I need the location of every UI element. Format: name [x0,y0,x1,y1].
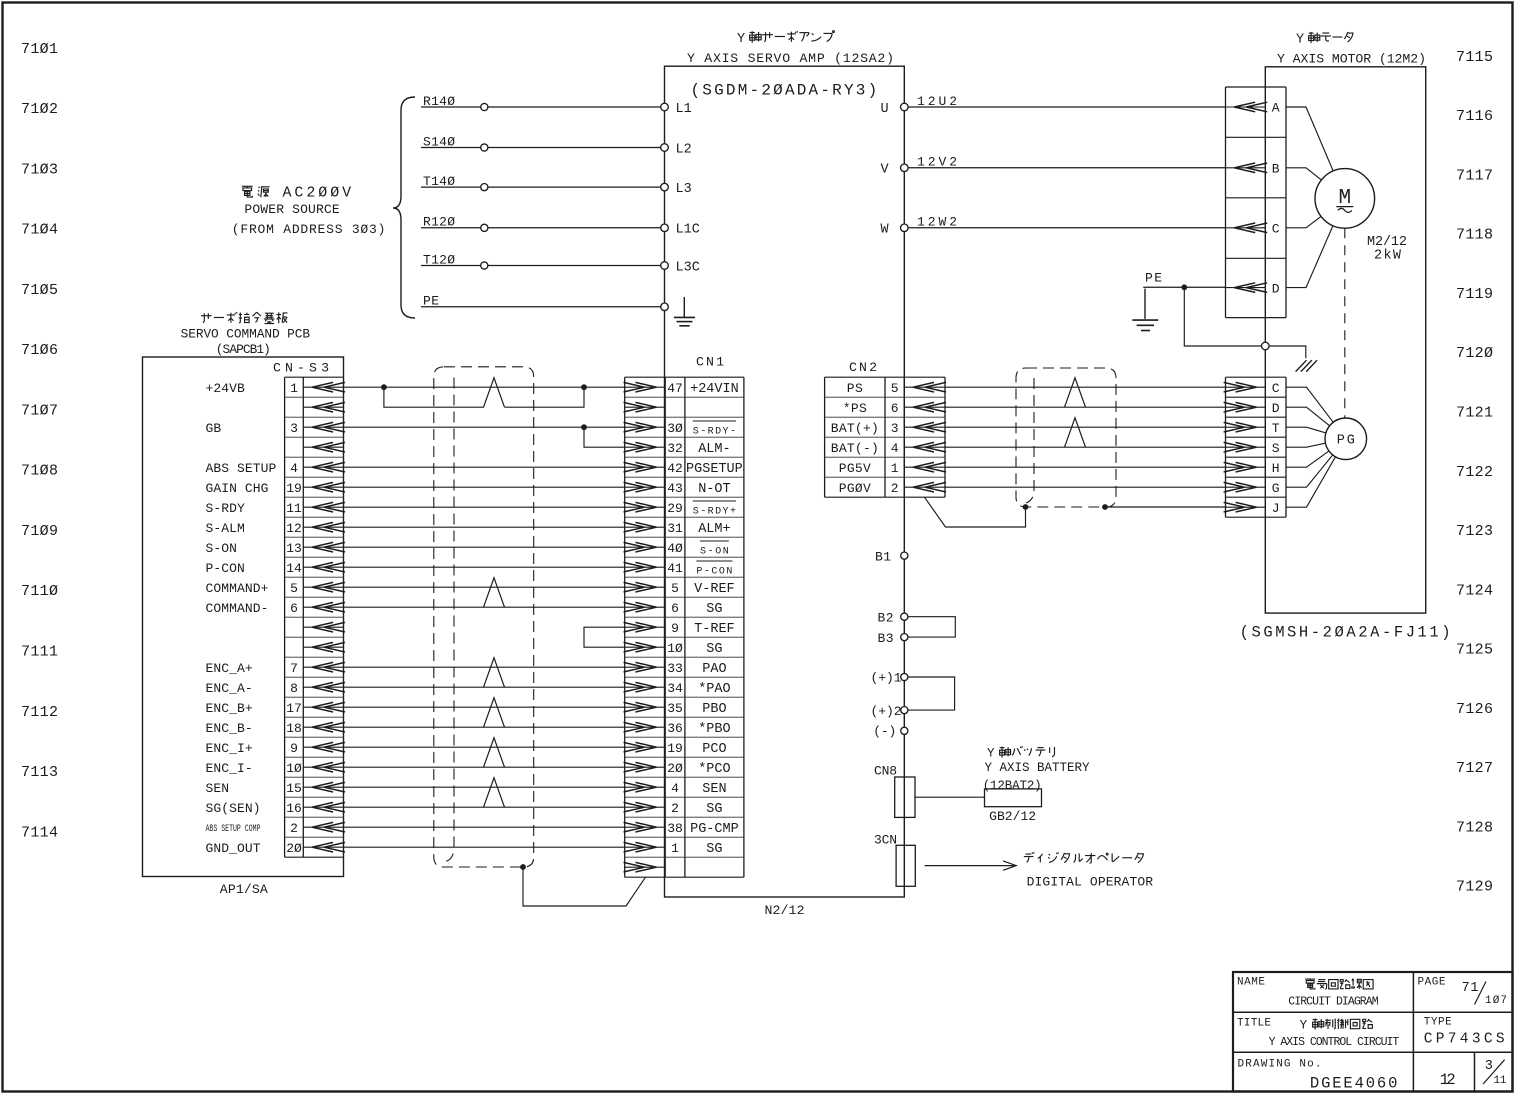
shield drain to J [1023,504,1029,510]
wire [344,666,625,668]
svg-text:7125: 7125 [1456,642,1493,659]
svg-text:19: 19 [667,741,683,756]
wire [344,486,625,488]
svg-text:ABS SETUP COMP: ABS SETUP COMP [206,824,261,835]
CN-S3 row pin 4 [303,466,343,468]
CN-S3 row pin 10 [303,766,343,768]
svg-text:DRAWING No.: DRAWING No. [1238,1059,1322,1071]
svg-text:PG5V: PG5V [839,461,871,476]
svg-text:S: S [1272,441,1280,456]
svg-text:3CN: 3CN [874,833,897,848]
motor terminal A [1226,106,1266,108]
CN2 shield (dashed) [1016,368,1116,507]
motor terminal D [1226,287,1266,289]
svg-text:*PAO: *PAO [698,682,730,697]
CN-S3 row pin 5 [303,586,343,588]
svg-text:14: 14 [286,561,302,576]
CN1 row pin 20 [625,766,666,768]
svg-text:CN8: CN8 [874,763,897,778]
CN-S3 row pin 1 [303,386,343,388]
wire [344,526,625,528]
CN1 row pin 31 [625,526,666,528]
svg-text:7118: 7118 [1456,227,1493,244]
svg-text:71Ø9: 71Ø9 [21,523,58,540]
svg-text:S14Ø: S14Ø [423,134,455,149]
svg-text:SG: SG [706,642,722,657]
svg-text:34: 34 [667,681,683,696]
cable shield (dashed) [434,367,534,867]
terminal L3C [661,262,669,270]
svg-text:PG: PG [1337,434,1355,449]
svg-text:2: 2 [891,481,899,496]
svg-text:Y: Y [1300,1019,1308,1033]
svg-text:SG: SG [706,602,722,617]
svg-text:L1C: L1C [676,223,700,238]
svg-text:71Ø1: 71Ø1 [21,41,58,58]
CN-S3 row pin 13 [303,546,343,548]
CN1 row pin 2 [625,806,666,808]
wire [344,506,625,508]
svg-text:(-): (-) [873,724,896,739]
CN-S3 row pin 19 [303,486,343,488]
svg-text:8: 8 [290,681,298,696]
svg-text:7116: 7116 [1456,108,1493,125]
svg-text:GB2/12: GB2/12 [989,809,1036,824]
svg-text:1Ø: 1Ø [286,761,302,776]
svg-text:SEN: SEN [702,782,726,797]
title block [1233,972,1513,1092]
CN1 row pin 29 [625,506,666,508]
svg-text:ENC_A+: ENC_A+ [206,661,253,676]
svg-text:3: 3 [891,421,899,436]
svg-text:CN1: CN1 [696,354,724,369]
wire [1286,439,1346,487]
CN-S3 connector table [285,376,344,378]
svg-text:9: 9 [290,741,298,756]
PG terminal D [1226,406,1266,408]
shield drain wire [520,864,526,870]
CN-S3 row pin 14 [303,566,343,568]
PG terminal H [1226,466,1266,468]
svg-text:33: 33 [667,661,683,676]
svg-text:S-RDY-: S-RDY- [693,426,736,437]
CN1 row pin 42 [625,466,666,468]
svg-text:2kW: 2kW [1374,249,1402,264]
svg-text:3: 3 [1485,1059,1493,1074]
twisted pair symbols [484,378,505,407]
svg-text:B3: B3 [878,631,894,646]
svg-text:SG(SEN): SG(SEN) [206,801,261,816]
svg-text:PE: PE [1145,271,1162,286]
wire [1286,387,1346,439]
terminal B1 [901,552,908,559]
CN-S3 row pin 16 [303,806,343,808]
svg-text:PCO: PCO [702,742,726,757]
svg-text:*PCO: *PCO [698,762,730,777]
svg-text:P-CON: P-CON [206,561,245,576]
svg-text:38: 38 [667,821,683,836]
CN1 row pin 36 [625,726,666,728]
svg-text:2: 2 [671,801,679,816]
motor terminal B [1226,167,1266,169]
svg-text:(+)2: (+)2 [871,704,902,719]
CN1 row pin 1 [625,846,666,848]
svg-text:1Ø7: 1Ø7 [1485,995,1507,1007]
svg-text:BAT(+): BAT(+) [831,421,879,436]
svg-text:19: 19 [286,481,302,496]
wire R140 [421,106,665,108]
svg-text:S-ALM: S-ALM [206,521,245,536]
svg-text:S-RDY: S-RDY [206,501,246,516]
wire [945,446,1226,448]
CN-S3 row pin 3 [303,426,343,428]
svg-text:42: 42 [667,461,683,476]
wire [344,746,625,748]
wire [1286,439,1346,467]
svg-text:Y: Y [737,32,745,47]
svg-text:U: U [881,102,889,117]
CN1 row pin 34 [625,686,666,688]
svg-text:S-ON: S-ON [700,546,729,557]
svg-text:Y AXIS MOTOR (12M2): Y AXIS MOTOR (12M2) [1277,51,1426,66]
CN1 row pin 10 [625,646,666,648]
svg-text:1Ø: 1Ø [667,641,683,656]
svg-text:71: 71 [1462,981,1479,996]
wire [344,806,625,808]
CN1 row pin blank [625,866,666,868]
svg-text:(FROM ADDRESS 3Ø3): (FROM ADDRESS 3Ø3) [232,222,386,237]
CN1 row pin 40 [625,546,666,548]
power source label 電源 AC200V [242,186,253,197]
svg-text:6: 6 [671,601,679,616]
svg-text:TYPE: TYPE [1424,1017,1452,1029]
wire [344,846,625,848]
svg-text:W: W [881,223,890,238]
svg-text:5: 5 [671,581,679,596]
svg-text:Y AXIS BATTERY: Y AXIS BATTERY [985,761,1090,775]
CN1 row pin 32 [625,446,666,448]
svg-text:71Ø3: 71Ø3 [21,161,58,178]
wire 12U2 [904,106,1225,108]
svg-text:Y: Y [1296,32,1304,47]
wire [344,786,625,788]
CN1 row pin 35 [625,706,666,708]
wire [1286,427,1346,439]
frame ground (chassis) [1269,346,1306,358]
svg-text:5: 5 [290,581,298,596]
svg-text:*PBO: *PBO [698,722,730,737]
svg-text:N-OT: N-OT [698,482,730,497]
wire [945,486,1226,488]
motor terminal C [1226,227,1266,229]
wire 12V2 [904,167,1225,169]
wire [1286,168,1345,199]
CN-S3 row pin 9 [303,746,343,748]
svg-text:D: D [1272,401,1280,416]
wire [1286,407,1346,439]
svg-text:7119: 7119 [1456,286,1493,303]
svg-text:A: A [1272,101,1280,116]
PG terminal C [1226,386,1266,388]
svg-text:T14Ø: T14Ø [423,174,455,189]
svg-text:H: H [1272,461,1280,476]
svg-text:SEN: SEN [206,781,230,796]
svg-text:7126: 7126 [1456,701,1493,718]
wire [344,826,625,828]
servo amp box (12SA2) [665,66,905,897]
svg-text:711Ø: 711Ø [21,583,58,600]
svg-text:C: C [1272,381,1280,396]
CN1 row pin 33 [625,666,666,668]
CN-S3 row pin 7 [303,666,343,668]
svg-text:ENC_I+: ENC_I+ [206,741,253,756]
wire [344,466,625,468]
svg-text:T: T [1272,421,1280,436]
motor M1 circle [1315,169,1375,229]
svg-text:B2: B2 [878,611,894,626]
CN-S3 row pin blank [303,446,343,448]
svg-text:L3C: L3C [676,260,700,275]
wire [1286,198,1345,287]
svg-text:71Ø5: 71Ø5 [21,282,58,299]
svg-text:32: 32 [667,441,683,456]
svg-text:2Ø: 2Ø [286,841,302,856]
CN-S3 row pin 15 [303,786,343,788]
svg-text:J: J [1272,501,1280,516]
svg-text:SG: SG [706,802,722,817]
CN-S3 row pin 17 [303,706,343,708]
svg-text:ENC_B+: ENC_B+ [206,701,253,716]
svg-text:ENC_B-: ENC_B- [206,721,253,736]
svg-text:31: 31 [667,521,683,536]
svg-text:CIRCUIT DIAGRAM: CIRCUIT DIAGRAM [1288,996,1378,1009]
svg-text:T-REF: T-REF [694,622,735,637]
svg-text:35: 35 [667,701,683,716]
svg-text:(12BAT2): (12BAT2) [983,779,1042,793]
svg-text:L1: L1 [676,102,692,117]
PG terminal T [1226,426,1266,428]
svg-text:PS: PS [847,381,863,396]
svg-text:CP743CS: CP743CS [1424,1032,1505,1048]
wire [344,586,625,588]
svg-text:712Ø: 712Ø [1456,345,1493,362]
svg-text:15: 15 [286,781,302,796]
wire to battery [915,796,985,798]
svg-text:7128: 7128 [1456,819,1493,836]
svg-text:1: 1 [290,381,298,396]
wire [344,426,625,428]
svg-text:TITLE: TITLE [1237,1018,1271,1030]
motor power connector table A-D [1226,86,1287,88]
dashed shaft motor to PG [1344,228,1346,418]
earth ground symbol [1144,289,1146,319]
svg-text:*PS: *PS [843,401,867,416]
svg-text:4: 4 [891,441,899,456]
svg-text:PGSETUP: PGSETUP [686,462,743,477]
wire [344,726,625,728]
CN2 row pin 3 BAT(+) [904,426,945,428]
wire [945,386,1226,388]
CN1 row pin 41 [625,566,666,568]
svg-text:7115: 7115 [1456,49,1493,66]
svg-text:7113: 7113 [21,764,58,781]
svg-text:71Ø7: 71Ø7 [21,403,58,420]
svg-text:+24VIN: +24VIN [690,382,739,397]
svg-text:ENC_I-: ENC_I- [206,761,253,776]
CN2 connector table [825,376,945,378]
svg-text:POWER SOURCE: POWER SOURCE [244,202,339,217]
svg-text:7129: 7129 [1456,879,1493,896]
svg-text:PGØV: PGØV [839,481,871,496]
svg-text:4: 4 [290,461,298,476]
svg-text:G: G [1272,481,1280,496]
PG terminal S [1226,446,1266,448]
svg-text:2: 2 [290,821,298,836]
svg-text:36: 36 [667,721,683,736]
svg-text:43: 43 [667,481,683,496]
terminal L1C [661,224,669,232]
svg-text:B1: B1 [875,550,891,565]
CN1 row pin 30 [625,426,666,428]
svg-text:7114: 7114 [21,824,58,841]
svg-text:L3: L3 [676,182,692,197]
CN1 row pin blank [625,406,666,408]
arrow to digital operator [925,865,1014,867]
svg-text:COMMAND+: COMMAND+ [206,581,269,596]
svg-text:S-RDY+: S-RDY+ [693,506,736,517]
svg-text:L2: L2 [676,142,692,157]
wire [344,606,625,608]
svg-text:7124: 7124 [1456,582,1493,599]
svg-text:2Ø: 2Ø [667,761,683,776]
CN-S3 row pin 12 [303,526,343,528]
PG connector table C D T S H G J [1226,376,1287,378]
svg-text:PBO: PBO [702,702,726,717]
PG terminal J [1226,506,1266,508]
svg-text:11: 11 [1494,1075,1507,1087]
svg-text:N2/12: N2/12 [765,903,805,918]
wire [344,706,625,708]
svg-text:AP1/SA: AP1/SA [220,882,268,897]
svg-text:7127: 7127 [1456,760,1493,777]
CN-S3 row pin 8 [303,686,343,688]
terminals (+)1 (+)2 with jumper [908,677,955,710]
svg-text:1: 1 [891,461,899,476]
CN2 row pin 6 *PS [904,406,945,408]
svg-text:D: D [1272,281,1280,296]
svg-text:(SAPCB1): (SAPCB1) [216,342,271,357]
svg-text:PG-CMP: PG-CMP [690,822,739,837]
svg-text:GB: GB [206,421,222,436]
CN1 connector table [625,376,744,378]
svg-text:ENC_A-: ENC_A- [206,681,253,696]
CN-S3 row pin blank [303,406,343,408]
CN-S3 row pin 6 [303,606,343,608]
wire [344,546,625,548]
svg-text:DIGITAL OPERATOR: DIGITAL OPERATOR [1027,874,1154,889]
svg-text:7121: 7121 [1456,405,1493,422]
svg-text:V: V [881,163,890,178]
CN-S3 row pin blank [303,626,343,628]
wire [1286,439,1346,507]
svg-text:PE: PE [423,294,439,309]
wire [1286,439,1346,447]
CN-S3 row pin 20 [303,846,343,848]
svg-text:SERVO COMMAND PCB: SERVO COMMAND PCB [181,327,311,342]
wire T120 [421,265,665,267]
wire [344,386,625,388]
terminal PE [661,303,669,311]
svg-text:7: 7 [290,661,298,676]
svg-text:16: 16 [286,801,302,816]
svg-text:29: 29 [667,501,683,516]
svg-text:PAO: PAO [702,662,726,677]
svg-text:6: 6 [891,401,899,416]
svg-text:7117: 7117 [1456,167,1493,184]
CN1 row pin 47 [625,386,666,388]
svg-text:BAT(-): BAT(-) [831,441,879,456]
svg-text:5: 5 [891,381,899,396]
svg-text:GAIN CHG: GAIN CHG [206,481,269,496]
wire PE to motor frame [1184,287,1261,346]
wire T140 [421,186,665,188]
svg-text:COMMAND-: COMMAND- [206,601,269,616]
svg-text:7123: 7123 [1456,523,1493,540]
svg-text:3Ø: 3Ø [667,421,683,436]
svg-text:PAGE: PAGE [1418,977,1446,989]
wire [945,406,1226,408]
svg-text:Y AXIS SERVO AMP (12SA2): Y AXIS SERVO AMP (12SA2) [687,51,894,66]
wire [344,766,625,768]
CN-S3 row pin blank [303,646,343,648]
svg-text:71Ø6: 71Ø6 [21,342,58,359]
svg-text:NAME: NAME [1237,977,1265,989]
svg-text:12: 12 [286,521,302,536]
CN1 row pin 6 [625,606,666,608]
svg-text:SG: SG [706,842,722,857]
svg-text:13: 13 [286,541,302,556]
brace [393,97,415,318]
wire S140 [421,147,665,149]
CN2 row pin 4 BAT(-) [904,446,945,448]
terminal L2 [661,144,669,152]
wire [945,426,1226,428]
ground symbol (PE terminal) [683,297,685,317]
svg-text:Y: Y [987,747,995,761]
svg-text:6: 6 [290,601,298,616]
CN1 row pin 5 [625,586,666,588]
svg-text:CN2: CN2 [849,360,877,375]
terminal (-) [901,727,908,734]
wire 12W2 [904,227,1225,229]
svg-text:18: 18 [286,721,302,736]
+24V branch loop with junction dots [381,384,387,390]
CN-S3 row pin 11 [303,506,343,508]
svg-text:11: 11 [286,501,302,516]
CN2 shell drain [925,497,1026,527]
svg-text:1: 1 [671,841,679,856]
PG terminal G [1226,486,1266,488]
svg-text:7111: 7111 [21,644,58,661]
wire [344,686,625,688]
T-REF / SG(10) loop [584,627,625,647]
svg-text:ALM-: ALM- [698,442,730,457]
wire PE [421,306,665,308]
svg-text:M2/12: M2/12 [1367,235,1407,250]
svg-text:GND_OUT: GND_OUT [206,841,261,856]
wire [945,466,1226,468]
CN1 row pin 43 [625,486,666,488]
